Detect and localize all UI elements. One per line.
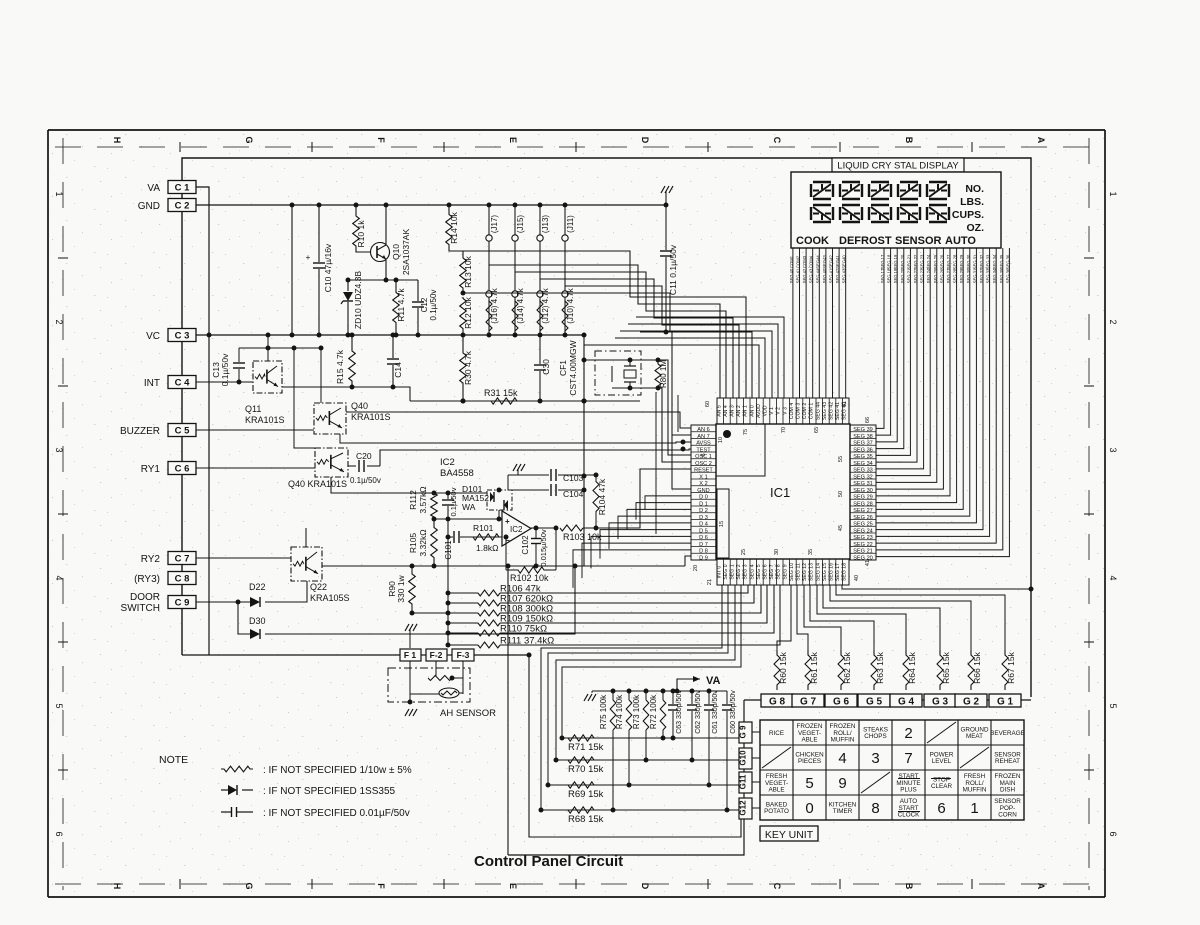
transistor Q22 KRA105S: [291, 547, 322, 581]
wire C11 to IC1 GND pin: [640, 332, 691, 489]
svg-text:COM3: COM3: [802, 255, 807, 268]
svg-text:D 2: D 2: [699, 508, 708, 514]
svg-text:25: 25: [741, 549, 747, 555]
svg-text:(J17): (J17): [490, 215, 499, 234]
svg-text:F-2: F-2: [430, 650, 443, 660]
resistor R63 15k: [871, 650, 877, 690]
diode D22: [196, 601, 250, 603]
resistor R75 100k: [612, 691, 614, 700]
svg-text:0.1µ/50v: 0.1µ/50v: [220, 353, 230, 387]
svg-text:R30 4.7k: R30 4.7k: [463, 350, 473, 385]
svg-text:F-3: F-3: [457, 650, 470, 660]
svg-text:C12: C12: [420, 297, 429, 312]
svg-text:3.57kΩ: 3.57kΩ: [418, 486, 428, 513]
svg-text:V 3: V 3: [782, 407, 788, 415]
svg-text:75: 75: [743, 429, 749, 435]
resistor R102 10k feedback: [555, 528, 557, 570]
svg-text:SEG 35: SEG 35: [999, 268, 1004, 283]
svg-text:C20: C20: [356, 451, 372, 461]
legend capacitor symbol: [221, 811, 231, 813]
border frame outer: [48, 129, 1105, 131]
svg-text:: IF NOT SPECIFIED 1/10w ± 5%: : IF NOT SPECIFIED 1/10w ± 5%: [263, 765, 412, 776]
svg-text:ABLE: ABLE: [801, 737, 817, 744]
resistor R112 3.57kD: [431, 493, 438, 517]
svg-text:D 5: D 5: [699, 528, 708, 534]
svg-text:SEG 43: SEG 43: [822, 402, 828, 420]
svg-text:35: 35: [808, 549, 814, 555]
node G 4: [890, 694, 922, 707]
zener ZD10 UDZ4.3B: [347, 280, 349, 291]
IC1 left pin row: [691, 425, 716, 560]
svg-text:AN 6: AN 6: [697, 427, 709, 433]
resistor R108 300kΩ: [448, 612, 478, 614]
resistor R107 620kΩ: [448, 602, 478, 604]
svg-text:E: E: [508, 137, 518, 143]
svg-text:SEG 17: SEG 17: [880, 254, 885, 269]
svg-text:C30: C30: [541, 359, 551, 375]
svg-text:INT 0: INT 0: [716, 566, 722, 579]
svg-text:AN 0: AN 0: [749, 405, 755, 417]
svg-text:4: 4: [838, 750, 846, 767]
svg-text:LIQUID CRY STAL DISPLAY: LIQUID CRY STAL DISPLAY: [837, 161, 959, 172]
resistor R74 100k: [628, 691, 630, 700]
svg-text:SEG 16: SEG 16: [829, 563, 835, 581]
wire Q22 emitter long analog rail: [322, 565, 685, 567]
svg-text:SEG 43: SEG 43: [842, 268, 847, 283]
svg-text:CF1: CF1: [558, 360, 568, 376]
resistor R60 15k: [774, 650, 780, 690]
resistor R66 15k: [968, 650, 974, 690]
svg-text:G 6: G 6: [833, 697, 850, 708]
svg-text:SWITCH: SWITCH: [121, 603, 160, 614]
resistor R62 15k: [838, 650, 844, 690]
svg-text:SEG 37: SEG 37: [853, 441, 873, 447]
svg-text:WA: WA: [462, 502, 476, 512]
svg-text:SEG 32: SEG 32: [979, 268, 984, 283]
svg-text:SEG 17: SEG 17: [880, 268, 885, 283]
wire VC to CF1 node: [583, 335, 585, 566]
jumper J15 / J14 with resistor: [514, 205, 516, 335]
svg-text:A: A: [1036, 883, 1046, 890]
svg-text:SEG 41: SEG 41: [835, 402, 841, 420]
svg-text:SEG 36: SEG 36: [1005, 254, 1010, 269]
svg-text:D 8: D 8: [699, 549, 708, 555]
AH SENSOR assembly: [388, 668, 470, 702]
resistor R72 100k: [662, 691, 664, 700]
svg-text:R75 100k: R75 100k: [599, 694, 608, 729]
svg-text:SEG 5: SEG 5: [756, 564, 762, 579]
LCD display body: [791, 172, 1001, 248]
svg-text:C104: C104: [563, 489, 584, 499]
svg-text:65: 65: [814, 427, 820, 433]
wire BUZZER to Q40: [196, 429, 314, 431]
svg-text:D 1: D 1: [699, 501, 708, 507]
svg-text:COM1: COM1: [789, 255, 794, 268]
resistor R90 330 1w: [411, 566, 413, 573]
svg-text:X 2: X 2: [699, 481, 707, 487]
resistor R65 15k: [937, 650, 943, 690]
svg-text:MUFFIN: MUFFIN: [831, 737, 855, 744]
svg-text:F 1: F 1: [404, 650, 417, 660]
node C7 RY2: [168, 552, 196, 565]
svg-text:SEG 40: SEG 40: [789, 268, 794, 283]
svg-text:SEG 29: SEG 29: [853, 495, 873, 501]
svg-text:70: 70: [781, 427, 787, 433]
svg-text:C101: C101: [444, 540, 453, 560]
svg-text:LBS.: LBS.: [960, 196, 984, 208]
resistor R15 4.7k: [351, 335, 353, 345]
svg-text:SEG 24: SEG 24: [853, 528, 873, 534]
svg-text:20: 20: [693, 565, 699, 571]
svg-text:SEG 14: SEG 14: [815, 563, 821, 581]
svg-text:C 4: C 4: [175, 378, 191, 389]
resistor R105 3.32kD: [431, 521, 438, 564]
svg-text:Q10: Q10: [391, 244, 401, 260]
wire INT node line: [410, 400, 640, 402]
svg-text:SEG 31: SEG 31: [972, 268, 977, 283]
wire stubs from IC1 left data pins: [645, 496, 691, 510]
svg-text:Q40 KRA101S: Q40 KRA101S: [288, 479, 347, 489]
transistor Q40 KRA101S upper: [314, 403, 346, 434]
resistor R64 15k: [903, 650, 909, 690]
svg-text:SEG 7: SEG 7: [769, 564, 775, 579]
resistor R67 15k: [1002, 650, 1008, 690]
svg-text:C10 47µ/16v: C10 47µ/16v: [323, 243, 333, 292]
svg-text:G10: G10: [739, 750, 748, 766]
wire RY2 to Q22: [196, 557, 291, 559]
svg-text:COOK: COOK: [796, 235, 829, 247]
jumper J17 / J16 with resistor: [488, 205, 490, 335]
svg-text:30: 30: [774, 549, 780, 555]
node C1 VA: [168, 181, 196, 194]
svg-text:SEG 41: SEG 41: [796, 268, 801, 283]
svg-text:C102: C102: [521, 535, 530, 555]
svg-text:D 3: D 3: [699, 515, 708, 521]
capacitor C101: [448, 536, 453, 538]
resonator CF1: [595, 351, 641, 395]
dual diode D101 MA152 WA: [487, 490, 512, 510]
node G 8: [761, 694, 793, 707]
svg-text:VDD: VDD: [763, 405, 769, 416]
jumper J13 / J12 with resistor: [539, 205, 541, 335]
wire bundle jumpers to IC1 top pins: [489, 265, 720, 398]
svg-text:SEG 21: SEG 21: [906, 268, 911, 283]
svg-text:D 6: D 6: [699, 535, 708, 541]
svg-text:SEG 33: SEG 33: [986, 254, 991, 269]
resistor R30 4.7k: [462, 335, 464, 348]
svg-text:0: 0: [805, 800, 813, 817]
svg-text:SEG 42: SEG 42: [835, 268, 840, 283]
svg-text:SEG 42: SEG 42: [829, 402, 835, 420]
svg-text:X 1: X 1: [699, 474, 707, 480]
ground at C103: [513, 464, 517, 471]
svg-text:BA4558: BA4558: [440, 468, 474, 479]
svg-text:D30: D30: [249, 616, 266, 626]
keypad top rail: [592, 690, 727, 692]
svg-text:PLUS: PLUS: [900, 787, 916, 794]
svg-text:KRA105S: KRA105S: [310, 593, 350, 603]
svg-text:SEG 26: SEG 26: [939, 254, 944, 269]
svg-text:H: H: [112, 137, 122, 144]
svg-text:R31 15k: R31 15k: [484, 388, 518, 398]
svg-text:COM 3: COM 3: [796, 403, 802, 420]
svg-text:GND: GND: [697, 488, 709, 494]
svg-text:SEG 15: SEG 15: [822, 563, 828, 581]
resistor R10 1k: [355, 205, 357, 213]
capacitor C102 0.015u/50v: [535, 528, 537, 538]
svg-text:D: D: [640, 883, 650, 890]
svg-text:C60 330p/50v: C60 330p/50v: [730, 690, 737, 734]
svg-text:R12 10k: R12 10k: [463, 296, 473, 328]
svg-text:LEVEL: LEVEL: [932, 758, 952, 765]
resistor R109 150kΩ: [448, 622, 478, 624]
svg-text:R64 15k: R64 15k: [907, 651, 917, 683]
svg-text:BUZZER: BUZZER: [120, 426, 160, 437]
svg-text:CUPS.: CUPS.: [952, 209, 984, 221]
transistor Q40 KRA101S lower: [315, 448, 348, 477]
svg-text:R102 10k: R102 10k: [510, 573, 549, 583]
svg-text:SEG 27: SEG 27: [853, 508, 873, 514]
svg-text:RICE: RICE: [769, 730, 784, 737]
node G 7: [792, 694, 824, 707]
svg-text:SEG 30: SEG 30: [853, 488, 873, 494]
svg-text:G 3: G 3: [932, 697, 949, 708]
svg-text:SEG 33: SEG 33: [986, 268, 991, 283]
svg-text:C 6: C 6: [175, 464, 190, 475]
svg-text:R65 15k: R65 15k: [941, 651, 951, 683]
svg-text:INT: INT: [144, 378, 160, 389]
capacitor C103: [508, 474, 549, 476]
svg-text:D22: D22: [249, 582, 266, 592]
svg-text:6: 6: [937, 800, 945, 817]
svg-text:D 9: D 9: [699, 555, 708, 561]
resistor R80 1M: [657, 360, 659, 364]
svg-text:D 0: D 0: [699, 495, 708, 501]
svg-text:G 4: G 4: [898, 697, 915, 708]
node C8 RY3: [168, 572, 196, 585]
svg-text:C63 330p/50v: C63 330p/50v: [676, 690, 683, 734]
svg-text:SEG 43: SEG 43: [809, 268, 814, 283]
wire R103 to RESET pin: [583, 469, 691, 528]
capacitor C63 330p/50v: [672, 691, 674, 704]
resistor R73 100k: [645, 691, 647, 700]
svg-text:5: 5: [805, 775, 813, 792]
svg-text:50: 50: [838, 491, 844, 497]
svg-text:21: 21: [707, 579, 713, 585]
op-amp output node: [531, 527, 556, 529]
capacitor C20 0.1u/50v: [348, 465, 356, 467]
svg-text:(J11): (J11): [566, 215, 575, 233]
wire vertical crossing left of IC1: [655, 392, 657, 534]
svg-text:AN 7: AN 7: [697, 434, 709, 440]
node G 9: [739, 722, 752, 743]
svg-text:SEG 25: SEG 25: [933, 268, 938, 283]
wire vertical GND-VC link: [291, 205, 293, 335]
svg-text:1.8kΩ: 1.8kΩ: [476, 543, 498, 553]
svg-text:SEG44: SEG44: [815, 255, 820, 269]
svg-text:7: 7: [904, 750, 912, 767]
resistor R104 47k: [584, 474, 596, 476]
svg-text:MUFFIN: MUFFIN: [963, 787, 987, 794]
svg-text:SEG 9: SEG 9: [782, 564, 788, 579]
svg-text:R60 15k: R60 15k: [778, 651, 788, 683]
IC1 microcontroller body: [716, 424, 850, 559]
svg-text:R70 15k: R70 15k: [568, 764, 604, 775]
svg-text:G: G: [244, 882, 254, 889]
svg-text:OZ.: OZ.: [967, 222, 985, 234]
svg-text:OSC 1: OSC 1: [695, 454, 712, 460]
svg-text:60: 60: [705, 401, 711, 407]
transistor Q10 2SA1037AK: [371, 243, 390, 262]
svg-text:SEG40: SEG40: [842, 255, 847, 269]
svg-text:TEST: TEST: [696, 447, 711, 453]
svg-text:1: 1: [54, 191, 64, 196]
wire INT from C4: [196, 381, 253, 383]
wire nest IC1 bottom to keypad lines: [541, 585, 722, 810]
svg-text:IC2: IC2: [510, 525, 523, 534]
node C9 DOOR SWITCH: [168, 596, 196, 609]
svg-text:R10 1k: R10 1k: [356, 220, 366, 248]
svg-text:45: 45: [838, 525, 844, 531]
svg-text:C 3: C 3: [175, 331, 190, 342]
svg-text:R61 15k: R61 15k: [809, 651, 819, 683]
svg-text:SEG 20: SEG 20: [900, 254, 905, 269]
LCD right connector wire bundle to IC1 right pins: [876, 248, 884, 428]
svg-text:3: 3: [1108, 447, 1118, 452]
svg-text:G 8: G 8: [769, 697, 786, 708]
capacitor C60 330p/50v: [726, 691, 728, 704]
resistor R11 4.7k: [393, 280, 400, 335]
svg-text:SEG 21: SEG 21: [906, 254, 911, 269]
svg-text:C: C: [772, 883, 782, 890]
svg-text:5: 5: [54, 703, 64, 708]
svg-text:R80 1M: R80 1M: [659, 360, 668, 388]
svg-text:SEG 44: SEG 44: [815, 402, 821, 420]
resistor R13 10k: [460, 256, 467, 290]
svg-text:SEG 28: SEG 28: [953, 268, 958, 283]
node G 3: [924, 694, 956, 707]
wire Q40 emitter to IC1 AN6 pin: [346, 412, 691, 428]
svg-text:VA: VA: [147, 183, 160, 194]
svg-text:SEG 6: SEG 6: [763, 564, 769, 579]
resistor R61 15k: [805, 650, 811, 690]
svg-text:AN 3: AN 3: [730, 405, 736, 417]
svg-text:KRA101S: KRA101S: [351, 412, 391, 422]
svg-text:G12: G12: [739, 800, 748, 816]
svg-text:40: 40: [854, 575, 860, 581]
svg-text:KEY UNIT: KEY UNIT: [765, 829, 814, 841]
node G11: [739, 772, 752, 793]
svg-text:66: 66: [865, 417, 871, 423]
svg-text:IC1: IC1: [770, 485, 790, 500]
svg-text:RY1: RY1: [141, 464, 161, 475]
wire left connector bus: [181, 194, 183, 199]
capacitor C30: [539, 335, 541, 364]
svg-text:G 2: G 2: [963, 697, 980, 708]
svg-text:+: +: [306, 253, 311, 262]
node G 1: [989, 694, 1021, 707]
resistor R110 75kΩ: [448, 632, 478, 634]
wire VA from C1 down along connector column: [196, 187, 209, 655]
svg-text:3: 3: [871, 750, 879, 767]
svg-text:0.1µ/50v: 0.1µ/50v: [429, 290, 438, 321]
svg-text:SEG 23: SEG 23: [920, 268, 925, 283]
key cell diagonal: [960, 747, 989, 768]
svg-text:R71 15k: R71 15k: [568, 742, 604, 753]
resistor R31 15k: [478, 398, 530, 404]
resistor R101 1.8kF: [470, 534, 502, 540]
node G 5: [858, 694, 890, 707]
svg-text:SEG 44: SEG 44: [815, 268, 820, 283]
svg-text:SEG 2: SEG 2: [736, 564, 742, 579]
wire to Q40 upper collector: [320, 348, 322, 403]
wire op-amp minus input: [470, 536, 502, 538]
wire CF1 to OSC2 pin: [658, 388, 691, 462]
keypad G-line R71: [562, 737, 739, 739]
keypad G-line R70: [556, 759, 739, 761]
svg-text:R67 15k: R67 15k: [1006, 651, 1016, 683]
wire Q40 to AVSS pin: [340, 434, 691, 443]
svg-text:SEG 10: SEG 10: [789, 563, 795, 581]
capacitor on ladder bus 0.1u/50v: [447, 493, 449, 499]
resistor R12 10k: [460, 297, 467, 330]
svg-text:R74 100k: R74 100k: [615, 694, 624, 729]
wire bundle to IC1 top pins: [584, 345, 759, 398]
svg-text:COM2: COM2: [796, 255, 801, 268]
svg-text:V 2: V 2: [776, 407, 782, 415]
svg-text:SEG 25: SEG 25: [853, 522, 873, 528]
svg-text:SEG 35: SEG 35: [853, 454, 873, 460]
svg-text:B: B: [904, 883, 914, 890]
node F1: [400, 649, 421, 661]
diode D30: [238, 602, 250, 634]
svg-text:F: F: [376, 137, 386, 143]
svg-text:AVDD: AVDD: [756, 404, 762, 418]
svg-text:REHEAT: REHEAT: [995, 758, 1020, 765]
key cell underlines: [898, 778, 920, 780]
svg-text:CST4.00MGW: CST4.00MGW: [568, 340, 578, 395]
svg-text:R14 10k: R14 10k: [449, 211, 459, 243]
key cell diagonal: [861, 772, 890, 793]
svg-text:GND: GND: [138, 201, 160, 212]
svg-text:SEG 4: SEG 4: [749, 564, 755, 579]
node C5 BUZZER: [168, 424, 196, 437]
svg-text:SEG 3: SEG 3: [743, 564, 749, 579]
svg-text:SEG 30: SEG 30: [966, 254, 971, 269]
svg-text:R101: R101: [473, 523, 494, 533]
wire nest IC1 bottom to G column resistors: [842, 585, 1031, 589]
svg-text:DOOR: DOOR: [130, 592, 160, 603]
legend diode symbol: [221, 789, 228, 791]
resistor R103 10k: [560, 525, 583, 531]
svg-text:SEG 18: SEG 18: [887, 268, 892, 283]
wire op-amp plus input line: [434, 518, 502, 520]
svg-text:SEG 18: SEG 18: [842, 563, 848, 581]
svg-text:330 1w: 330 1w: [396, 574, 406, 602]
svg-text:SEG41: SEG41: [835, 255, 840, 269]
wire to Q40 lower collector: [294, 348, 315, 448]
svg-text:R63 15k: R63 15k: [875, 651, 885, 683]
svg-text:SEG 38: SEG 38: [853, 434, 873, 440]
IC1 right pin row: [850, 425, 876, 560]
wire vertical crossing left of IC1 second: [677, 395, 679, 432]
ground below AH sensor: [405, 709, 409, 716]
svg-text:VC: VC: [146, 331, 160, 342]
svg-text:G11: G11: [739, 774, 748, 789]
wire VA top rail from C1 to right edge: [182, 158, 1031, 697]
svg-text:COM 2: COM 2: [802, 403, 808, 420]
svg-text:8: 8: [871, 800, 879, 817]
